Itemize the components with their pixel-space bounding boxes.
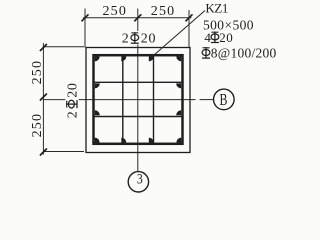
svg-text:8@100/200: 8@100/200 [211, 45, 277, 60]
horizontal axis line (column centerline to grid bubble B) [43, 99, 195, 101]
label 2phi20 top [120, 31, 157, 47]
svg-text:250: 250 [102, 4, 127, 19]
svg-text:250: 250 [151, 4, 176, 19]
top dimension line [83, 17, 192, 19]
svg-text:4: 4 [204, 30, 211, 45]
svg-text:20: 20 [65, 82, 80, 97]
right extension line (top dim, right) [188, 10, 190, 48]
tick top-center [134, 14, 141, 21]
column concrete outline [86, 48, 190, 153]
grid bubble 3 [128, 172, 148, 192]
rebar dot corner TL [95, 56, 100, 61]
tick left-middle [40, 94, 47, 101]
svg-text:3: 3 [137, 170, 143, 187]
horizontal axis line dash segment near bubble B [200, 99, 214, 101]
rebar dot corner BL [95, 138, 100, 143]
text phi8@100/200 [202, 45, 276, 60]
tick left-bottom [40, 149, 47, 156]
top extension segment (left dim) [43, 46, 84, 48]
grid bubble B [214, 89, 235, 110]
rebar dot left upper [95, 83, 100, 88]
svg-text:250: 250 [30, 60, 45, 85]
rebar dot left lower [95, 110, 100, 115]
leader line to KZ1 [152, 11, 205, 57]
tick top-left [82, 14, 89, 21]
rebar dot right upper [176, 83, 181, 88]
horizontal tie line lower [94, 116, 183, 118]
svg-text:2: 2 [65, 111, 80, 118]
svg-text:B: B [219, 91, 227, 109]
vertical axis line (column centerline to grid bubble 3) [137, 9, 139, 173]
stirrup (thick square) [94, 55, 183, 144]
rebar dot corner BR [176, 138, 181, 143]
svg-text:2: 2 [122, 32, 129, 47]
tick left-top [40, 44, 47, 51]
left dimension line [42, 43, 44, 155]
tick top-right [186, 14, 193, 21]
text 4phi20 [204, 30, 233, 45]
bottom extension segment (left dim) [43, 151, 84, 153]
rebar dot bottom mid-left [121, 138, 126, 143]
rebar dot top mid-right [149, 56, 154, 61]
rebar dot right lower [176, 110, 181, 115]
rebar dot top mid-left [121, 56, 126, 61]
svg-text:KZ1: KZ1 [205, 1, 228, 16]
rebar dot bottom mid-right [149, 138, 154, 143]
svg-text:20: 20 [219, 30, 233, 45]
svg-text:250: 250 [30, 113, 45, 138]
label 2phi20 left (rotated) [65, 81, 80, 118]
vertical tie line right [153, 55, 155, 144]
svg-text:20: 20 [141, 32, 156, 47]
vertical tie line left [122, 55, 124, 144]
rebar dot corner TR [176, 56, 181, 61]
horizontal tie line upper [94, 81, 183, 83]
left extension line (top dim, left) [84, 9, 86, 48]
